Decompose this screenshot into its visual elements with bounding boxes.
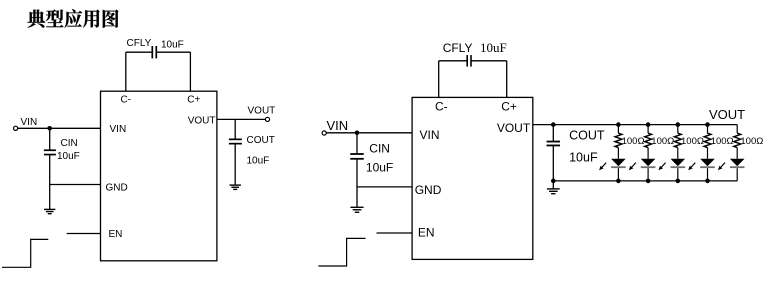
- node junction D1 bottom: [616, 179, 621, 184]
- wire rail to R2: [647, 125, 649, 134]
- IC U2 (charge pump) body: [412, 97, 533, 259]
- wire CIN bottom to ground: [49, 155, 51, 210]
- svg-text:10uF: 10uF: [366, 160, 393, 174]
- wire EN2 to U2: [377, 232, 413, 234]
- capacitor COUT2: [547, 141, 561, 143]
- wire CIN2 bottom to ground: [356, 159, 358, 208]
- wire junction to CIN top: [49, 128, 51, 150]
- wire D4 to bottom rail: [707, 168, 709, 181]
- wire CFLY2 top left segment: [439, 60, 467, 62]
- wire VIN to U1: [18, 127, 101, 129]
- wire CIN2 branch to GND pin: [357, 186, 412, 188]
- wire rail to R1: [617, 125, 619, 134]
- svg-text:COUT: COUT: [247, 135, 275, 146]
- node junction R2 top: [646, 122, 651, 127]
- wire CFLY top right segment: [156, 51, 190, 53]
- svg-text:CIN: CIN: [369, 141, 390, 155]
- wire VOUT junction to COUT: [234, 119, 236, 139]
- LED D5: [730, 159, 745, 167]
- wire VOUT from U1: [217, 118, 266, 120]
- node junction VIN/CIN: [47, 126, 52, 131]
- svg-text:C-: C-: [121, 95, 132, 106]
- svg-text:100Ω: 100Ω: [711, 136, 734, 147]
- wire rail to R4: [707, 125, 709, 134]
- node junction D2 bottom: [646, 179, 651, 184]
- wire COUT bottom to ground: [234, 144, 236, 185]
- svg-text:CFLY: CFLY: [127, 38, 152, 49]
- LED D2: [641, 159, 656, 167]
- svg-text:100Ω: 100Ω: [651, 136, 674, 147]
- node junction COUT2 top: [551, 122, 556, 127]
- node junction VIN2/CIN2: [355, 131, 360, 136]
- wire VOUT2 top rail: [533, 124, 737, 126]
- LED D3: [671, 159, 686, 167]
- svg-text:10uF: 10uF: [57, 151, 80, 162]
- LED D5 light arrow: [721, 163, 725, 168]
- svg-text:10uF: 10uF: [480, 40, 507, 55]
- wire bottom return rail: [553, 180, 737, 182]
- node junction R1 top: [616, 122, 621, 127]
- LED D2 light arrow: [632, 163, 636, 168]
- svg-text:100Ω: 100Ω: [740, 136, 763, 147]
- ground (CIN): [44, 208, 55, 210]
- resistor R2 100ohm: [645, 133, 652, 147]
- resistor R3 100ohm: [674, 133, 681, 147]
- wire D5 to bottom rail: [736, 168, 738, 181]
- svg-text:VOUT: VOUT: [497, 121, 531, 135]
- wire junction to CIN2 top: [356, 133, 358, 154]
- wire COUT2 bottom to rail: [552, 145, 554, 189]
- svg-text:100Ω: 100Ω: [622, 136, 645, 147]
- resistor R5 100ohm: [734, 133, 741, 147]
- svg-text:EN: EN: [109, 229, 123, 240]
- LED D1: [611, 159, 626, 167]
- wire CIN branch to GND pin: [50, 184, 101, 186]
- LED D4 light arrow: [691, 163, 695, 168]
- svg-text:10uF: 10uF: [161, 39, 184, 50]
- wire D1 to bottom rail: [617, 168, 619, 181]
- svg-text:VIN: VIN: [21, 117, 38, 128]
- node junction R3 top: [676, 122, 681, 127]
- wire CFLY2 top right segment: [471, 60, 507, 62]
- wire CFLY top left segment: [126, 51, 152, 53]
- wire R3 to D3: [677, 148, 679, 159]
- ground (CIN2): [350, 206, 363, 208]
- node junction COUT2 bottom: [551, 179, 556, 184]
- resistor R4 100ohm: [704, 133, 711, 147]
- wire rail to R3: [677, 125, 679, 134]
- svg-text:VOUT: VOUT: [188, 115, 216, 126]
- EN enable step waveform: [2, 239, 48, 267]
- svg-text:10uF: 10uF: [569, 151, 598, 165]
- wire C- to CFLY (left leg): [125, 52, 127, 91]
- node junction R4 top: [705, 122, 710, 127]
- capacitor CIN: [44, 149, 56, 151]
- node VOUT terminal circle: [265, 117, 269, 121]
- svg-text:C-: C-: [435, 100, 448, 114]
- svg-text:CIN: CIN: [61, 138, 78, 149]
- svg-text:VOUT: VOUT: [248, 105, 276, 116]
- node VIN2 terminal circle: [322, 131, 326, 135]
- capacitor C1 CFLY: [151, 46, 153, 58]
- wire R4 to D4: [707, 148, 709, 159]
- wire R1 to D1: [617, 148, 619, 159]
- wire C+ to CFLY2 (right leg): [506, 61, 508, 98]
- wire rail to R5: [736, 125, 738, 134]
- LED D1 light arrow: [602, 163, 606, 168]
- capacitor C2 CFLY: [466, 55, 468, 67]
- wire R2 to D2: [647, 148, 649, 159]
- wire D3 to bottom rail: [677, 168, 679, 181]
- svg-text:10uF: 10uF: [247, 156, 270, 167]
- wire C- to CFLY2 (left leg): [438, 61, 440, 98]
- svg-text:VIN: VIN: [327, 118, 349, 133]
- wire C+ to CFLY (right leg): [189, 52, 191, 91]
- svg-text:VIN: VIN: [420, 128, 440, 142]
- capacitor CIN2: [350, 153, 364, 155]
- IC U1 (charge pump) body: [101, 91, 217, 261]
- EN2 enable step waveform: [318, 238, 365, 266]
- svg-text:C+: C+: [501, 100, 517, 114]
- wire R5 to D5: [736, 148, 738, 159]
- capacitor COUT: [229, 138, 242, 140]
- svg-text:C+: C+: [187, 95, 200, 106]
- svg-text:COUT: COUT: [569, 129, 605, 143]
- svg-text:GND: GND: [106, 182, 128, 193]
- svg-text:GND: GND: [415, 183, 442, 197]
- node VIN terminal circle: [14, 126, 18, 130]
- node junction D4 bottom: [705, 179, 710, 184]
- svg-text:EN: EN: [418, 226, 435, 240]
- wire COUT2 top: [552, 125, 554, 142]
- svg-text:VOUT: VOUT: [709, 107, 745, 122]
- svg-text:CFLY: CFLY: [443, 41, 473, 55]
- node junction D3 bottom: [676, 179, 681, 184]
- resistor R1 100ohm: [615, 133, 622, 147]
- ground (COUT): [230, 184, 241, 186]
- wire D2 to bottom rail: [647, 168, 649, 181]
- wire EN to U1: [67, 233, 101, 235]
- LED D4: [700, 159, 715, 167]
- wire VIN2 to U2: [326, 132, 412, 134]
- svg-text:VIN: VIN: [110, 124, 127, 135]
- ground (COUT2): [547, 188, 560, 190]
- LED D3 light arrow: [662, 163, 666, 168]
- svg-text:100Ω: 100Ω: [681, 136, 704, 147]
- title 典型应用图: [28, 9, 119, 27]
